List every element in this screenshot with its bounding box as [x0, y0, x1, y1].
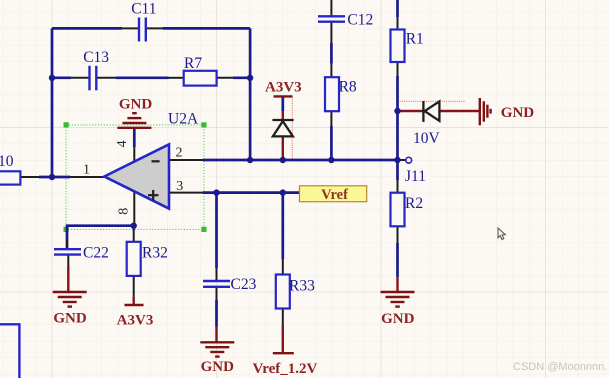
svg-text:C12: C12: [347, 12, 373, 29]
svg-text:GND: GND: [501, 105, 535, 121]
svg-text:C13: C13: [83, 49, 109, 66]
svg-text:2: 2: [176, 145, 183, 160]
svg-text:Vref: Vref: [321, 187, 348, 203]
svg-text:C22: C22: [83, 244, 109, 261]
svg-text:R33: R33: [289, 277, 315, 294]
svg-text:R2: R2: [405, 195, 423, 212]
svg-text:C23: C23: [231, 276, 257, 293]
svg-text:A3V3: A3V3: [117, 312, 154, 328]
svg-text:GND: GND: [381, 311, 415, 327]
svg-text:R7: R7: [184, 55, 202, 72]
svg-text:8: 8: [116, 208, 131, 215]
svg-text:1: 1: [83, 163, 90, 178]
svg-text:Vref_1.2V: Vref_1.2V: [252, 361, 317, 377]
svg-text:R8: R8: [339, 78, 357, 95]
svg-text:U2A: U2A: [168, 111, 199, 128]
svg-text:10: 10: [0, 153, 14, 170]
svg-text:4: 4: [115, 140, 130, 147]
svg-text:C11: C11: [131, 1, 156, 18]
svg-text:R32: R32: [142, 244, 168, 261]
svg-text:J11: J11: [405, 168, 426, 185]
svg-text:GND: GND: [119, 96, 153, 112]
svg-text:10V: 10V: [413, 130, 441, 147]
svg-text:CSDN @Moonnnn.: CSDN @Moonnnn.: [513, 361, 607, 373]
svg-text:3: 3: [176, 179, 183, 194]
svg-text:A3V3: A3V3: [265, 79, 302, 95]
svg-text:R1: R1: [406, 30, 424, 47]
svg-text:GND: GND: [201, 359, 235, 375]
svg-text:GND: GND: [53, 310, 87, 326]
